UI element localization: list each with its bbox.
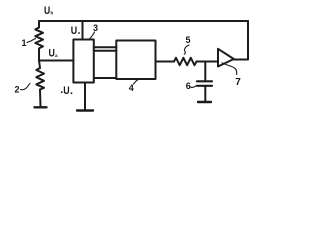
wire junction down to R2 [39, 61, 40, 69]
svg-text:U: U [49, 48, 55, 60]
leader for 4 [134, 80, 139, 85]
label 2 [15, 85, 20, 95]
svg-text:U: U [44, 5, 50, 17]
node Uh label [44, 5, 54, 17]
wire top feedback rail [39, 21, 248, 28]
resistor R5 [174, 58, 197, 65]
svg-text:3: 3 [93, 23, 98, 33]
ground under C6 [198, 101, 211, 103]
label 7 [235, 77, 241, 88]
node Ua label [49, 48, 59, 60]
leader for 7 [222, 63, 237, 75]
label 5 [186, 35, 191, 45]
label 6 [186, 81, 191, 91]
svg-text:5: 5 [186, 35, 191, 45]
coupling double line box3-box4 [94, 46, 117, 48]
svg-text:7: 7 [235, 77, 241, 88]
label 1 [22, 38, 27, 48]
svg-text:6: 6 [186, 81, 191, 91]
wire R2 to ground [39, 90, 42, 108]
capacitor C6 top plate [197, 80, 212, 82]
node UM label (bottom) [61, 85, 73, 97]
ground under box3 [77, 109, 93, 111]
leader for 5 [184, 45, 189, 54]
wire junction to capacitor C6 [204, 62, 206, 81]
leader for 1 [27, 39, 36, 43]
wire box4 to R5 [156, 61, 175, 63]
coupling bottom line box3-box4 [94, 77, 117, 79]
svg-text:a: a [55, 53, 58, 58]
label 4 [129, 83, 134, 93]
svg-text:U: U [63, 85, 69, 97]
op-amp 7 (amplifier triangle) [218, 49, 234, 67]
wire right vertical from rail to amp output [234, 21, 248, 60]
wire C6 to ground [204, 86, 206, 102]
wire R5 to amp input [197, 61, 219, 63]
resistor R1 [35, 28, 43, 51]
leader for 6 [191, 86, 197, 88]
capacitor C6 bottom plate [197, 85, 212, 87]
wire box3 bottom to ground [84, 83, 86, 111]
ground under R2 [35, 106, 47, 108]
node Us label (left of box3 top) [71, 25, 80, 37]
svg-text:h: h [51, 11, 54, 16]
wire rail down into box3 [82, 21, 84, 40]
box 3 (element 3) [73, 40, 93, 83]
label 3 [93, 23, 98, 33]
wire divider junction to box3 [39, 50, 73, 61]
svg-text:4: 4 [129, 83, 134, 93]
resistor R2 [36, 68, 44, 90]
box 4 (element 4) [116, 41, 155, 80]
svg-text:1: 1 [22, 38, 27, 48]
leader for 3 [90, 32, 95, 39]
leader for 2 [21, 84, 31, 90]
svg-text:U: U [71, 25, 77, 37]
svg-text:2: 2 [15, 85, 20, 95]
